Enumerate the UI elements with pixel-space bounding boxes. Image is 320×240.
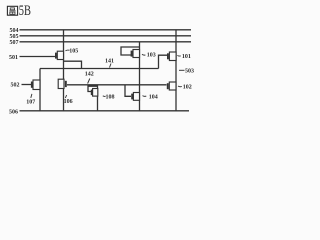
- svg-text:107: 107: [26, 99, 35, 105]
- svg-text:501: 501: [9, 55, 18, 61]
- svg-text:506: 506: [9, 109, 18, 115]
- svg-text:105: 105: [69, 48, 78, 54]
- svg-text:104: 104: [149, 95, 158, 101]
- svg-text:5B: 5B: [19, 3, 31, 19]
- svg-text:141: 141: [105, 59, 114, 65]
- svg-text:142: 142: [85, 72, 94, 78]
- svg-text:106: 106: [64, 99, 73, 105]
- svg-text:103: 103: [147, 52, 156, 58]
- svg-text:102: 102: [183, 84, 192, 90]
- svg-text:503: 503: [185, 69, 194, 75]
- svg-text:101: 101: [182, 54, 191, 60]
- svg-text:507: 507: [10, 40, 19, 46]
- svg-text:502: 502: [11, 83, 20, 89]
- svg-text:108: 108: [106, 95, 115, 101]
